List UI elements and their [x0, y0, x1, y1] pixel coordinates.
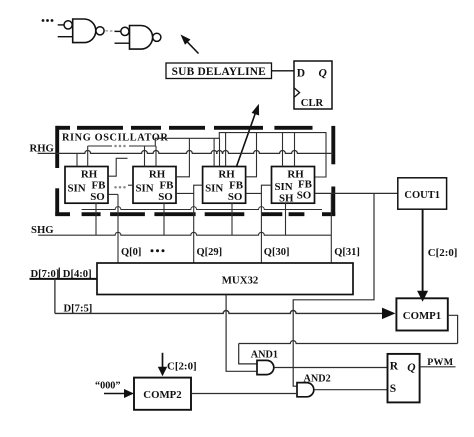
delay cell 2 box — [133, 167, 176, 204]
wire PWM output — [420, 366, 456, 368]
wire dotted link between gates — [105, 30, 120, 33]
svg-text:FB: FB — [92, 180, 106, 192]
svg-text:AND1: AND1 — [251, 349, 278, 360]
svg-text:COMP2: COMP2 — [143, 389, 181, 401]
and gate AND1 — [257, 360, 274, 374]
wire cell2 FB riser — [176, 138, 189, 177]
svg-text:Q[29]: Q[29] — [197, 247, 223, 258]
sub delayline box — [166, 63, 272, 79]
svg-text:MUX32: MUX32 — [222, 274, 259, 286]
wire C[2:0] arrow into comp2 — [158, 353, 167, 376]
svg-text:Q[0]: Q[0] — [121, 247, 141, 258]
wire cell4 SO to COUT1 — [315, 192, 398, 194]
wire cell3 top drops — [214, 133, 226, 167]
wire cell1 FB stub — [108, 158, 128, 176]
dots omitted taps — [151, 249, 165, 252]
wire stub into cell2 SIN — [128, 184, 133, 186]
svg-text:SIN: SIN — [68, 183, 86, 195]
wire comp1 output loop — [239, 315, 458, 364]
wire cell3 SO to cell4 SIN — [246, 185, 272, 193]
wire sub delayline to dff — [272, 70, 295, 72]
svg-text:PWM: PWM — [427, 357, 454, 368]
svg-text:“000”: “000” — [95, 380, 120, 391]
ring oscillator frame bottom dashes — [82, 212, 305, 216]
svg-text:CLR: CLR — [301, 98, 324, 109]
and gate AND2 — [297, 383, 314, 397]
ring oscillator frame right bracket — [322, 126, 335, 216]
mux MUX32 — [97, 263, 353, 295]
wire Q[29] tap — [193, 193, 195, 263]
wire comp2 out to and2 — [191, 393, 297, 395]
svg-text:SIN: SIN — [205, 183, 223, 195]
svg-text:SO: SO — [297, 190, 312, 202]
svg-text:Q: Q — [407, 362, 415, 374]
wire and2 output to S — [314, 389, 387, 391]
delay cell 3 box — [203, 167, 246, 204]
wire Q[30] tap — [260, 193, 262, 263]
wire cell1 top drops — [77, 146, 88, 167]
arrow pointing to gates — [181, 35, 199, 54]
wire SHG line — [38, 232, 331, 235]
svg-text:SIN: SIN — [136, 183, 154, 195]
wire and1 output to R — [274, 367, 387, 369]
delay cell 4 box — [272, 167, 315, 205]
svg-text:SUB DELAYLINE: SUB DELAYLINE — [172, 66, 266, 78]
svg-text:RING OSCILLATOR: RING OSCILLATOR — [62, 132, 168, 143]
rs latch — [388, 354, 420, 403]
wire D[7:5] bus to comp1 — [55, 310, 384, 313]
wire cell2 top drops — [145, 146, 157, 167]
svg-text:C[2:0]: C[2:0] — [428, 247, 458, 259]
wire Q[0] tap — [117, 194, 119, 263]
delay cell 1 box — [65, 167, 108, 204]
nand gate 2 — [115, 26, 161, 50]
svg-text:SIN: SIN — [275, 181, 293, 193]
counter COUT1 — [398, 178, 447, 209]
wire cell1 SO out — [108, 193, 118, 195]
svg-text:RHG: RHG — [30, 142, 55, 154]
wire cell3 FB riser — [246, 133, 257, 177]
arrow cell3 to sub delayline — [237, 104, 260, 167]
d flip-flop U1 — [294, 61, 332, 109]
dots ellipsis top-left — [42, 19, 54, 22]
wire D bus into mux — [30, 278, 98, 280]
arrowhead into comp1 — [382, 308, 396, 320]
svg-text:R: R — [390, 360, 399, 372]
wire cell4 top drops — [283, 133, 295, 167]
dots omitted cells top — [114, 145, 126, 148]
ring oscillator frame top dashes — [56, 126, 313, 130]
wire feedback stepped line segment b — [129, 133, 326, 177]
dots omitted cells mid — [114, 186, 126, 189]
comparator COMP2 — [134, 378, 191, 410]
nand gate 1 — [58, 19, 104, 43]
svg-text:COMP1: COMP1 — [403, 310, 441, 322]
svg-text:SO: SO — [90, 191, 105, 203]
wire D[7:5] branch — [54, 279, 56, 314]
wire mux out to and1 — [226, 295, 257, 372]
wire cell SH drops — [96, 203, 286, 235]
wire RHG line — [38, 150, 333, 153]
wire so tap to and2 — [293, 193, 374, 386]
svg-text:C[2:0]: C[2:0] — [167, 360, 197, 372]
svg-text:Q: Q — [319, 68, 327, 80]
wire Q[31] tap — [330, 193, 332, 263]
svg-text:SO: SO — [158, 191, 173, 203]
wire label separator — [58, 268, 60, 278]
svg-text:S: S — [390, 383, 396, 395]
svg-text:FB: FB — [229, 180, 243, 192]
wire cell2 SO to cell3 SIN — [176, 185, 203, 193]
svg-text:SHG: SHG — [31, 224, 54, 236]
svg-text:D: D — [297, 68, 305, 80]
svg-text:COUT1: COUT1 — [404, 190, 440, 201]
svg-text:SH: SH — [279, 193, 294, 205]
wire 000 arrow into comp2 — [104, 389, 134, 398]
svg-text:FB: FB — [160, 180, 174, 192]
comparator COMP1 — [396, 298, 447, 330]
wire C[2:0] arrow — [417, 209, 428, 302]
svg-text:SO: SO — [228, 191, 243, 203]
ring oscillator frame left bracket — [55, 126, 70, 216]
svg-text:Q[31]: Q[31] — [334, 247, 360, 258]
svg-text:Q[30]: Q[30] — [264, 247, 290, 258]
wire feedback stepped line segment a — [88, 145, 112, 147]
wire runner below cells — [82, 207, 322, 210]
